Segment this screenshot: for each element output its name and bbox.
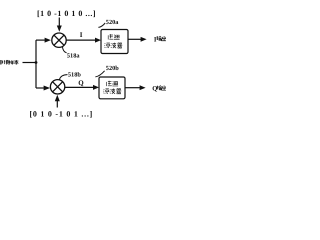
svg-text:[1 0 -1 0 1 0 ...]: [1 0 -1 0 1 0 ...] xyxy=(37,9,96,18)
svg-text:Q: Q xyxy=(78,79,84,87)
svg-text:518b: 518b xyxy=(68,72,81,79)
svg-text:518a: 518a xyxy=(67,53,80,60)
svg-text:Q: Q xyxy=(152,86,157,93)
svg-text:520a: 520a xyxy=(106,19,119,26)
svg-text:[0 1 0 -1 0 1 ...]: [0 1 0 -1 0 1 ...] xyxy=(30,109,94,118)
svg-text:520b: 520b xyxy=(106,65,119,72)
svg-text:I: I xyxy=(80,31,83,39)
svg-text:I: I xyxy=(154,36,157,43)
